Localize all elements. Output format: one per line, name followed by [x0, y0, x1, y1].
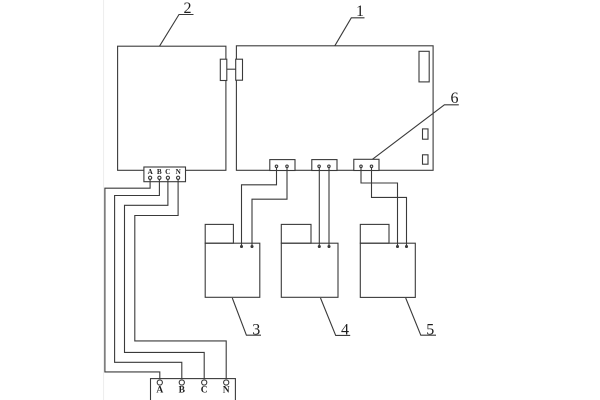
svg-text:C: C: [201, 386, 208, 396]
device 3: [205, 224, 260, 297]
enclosure 2: [118, 46, 226, 170]
terminal C: [166, 176, 169, 179]
svg-text:5: 5: [426, 321, 434, 338]
wire between docking ports: [227, 68, 236, 70]
svg-text:2: 2: [184, 0, 192, 17]
terminal B: [158, 176, 161, 179]
bottom terminal C: [202, 380, 207, 385]
label 2: [184, 0, 192, 17]
wire phase A: [105, 180, 160, 380]
enclosure 1: [236, 46, 433, 171]
wire J1 pin1 to device 3: [242, 167, 277, 246]
device 4: [281, 224, 338, 297]
bottom terminal label C: [201, 386, 208, 396]
bottom terminal N: [224, 380, 229, 385]
terminal block ABCN: [144, 167, 186, 182]
label 5 leader: [406, 298, 436, 335]
terminal label B: [157, 168, 162, 176]
terminal A: [149, 176, 152, 179]
svg-text:4: 4: [341, 321, 349, 338]
wire phase C: [125, 180, 205, 380]
bottom terminal label N: [223, 386, 230, 396]
bottom terminal A: [157, 380, 162, 385]
wire J3 pin2 to device 5: [372, 167, 407, 246]
svg-text:C: C: [165, 168, 170, 176]
terminal label C: [165, 168, 170, 176]
upper small slot in enclosure 1: [423, 129, 429, 139]
label 3 leader: [232, 298, 261, 335]
label 5: [426, 321, 434, 338]
bottom terminal label B: [179, 386, 186, 396]
tall slot in enclosure 1: [419, 51, 429, 82]
label 4: [341, 321, 349, 338]
terminal label A: [148, 168, 154, 176]
connector J1: [270, 160, 295, 171]
bottom terminal B: [179, 380, 184, 385]
label 1 leader: [335, 18, 365, 46]
svg-text:A: A: [156, 386, 163, 396]
docking port on enclosure 1: [236, 59, 243, 80]
bottom terminal block: [151, 379, 236, 400]
bottom terminal label A: [156, 386, 163, 396]
label 3: [252, 321, 260, 338]
wire phase B: [115, 180, 182, 380]
svg-text:B: B: [157, 168, 162, 176]
wire neutral N: [135, 180, 226, 380]
svg-text:6: 6: [451, 90, 459, 107]
wire J2 pin2 to device 4: [328, 167, 330, 246]
connector J3: [354, 159, 379, 170]
docking port on enclosure 2: [220, 59, 227, 80]
terminal N: [177, 176, 180, 179]
device 5: [360, 224, 415, 297]
svg-text:3: 3: [252, 321, 260, 338]
wire J3 pin1 to device 5: [361, 167, 398, 246]
svg-text:A: A: [148, 168, 154, 176]
svg-text:B: B: [179, 386, 186, 396]
wire J1 pin2 to device 3: [252, 167, 287, 246]
svg-text:1: 1: [356, 3, 364, 20]
label 6 leader: [372, 105, 458, 160]
connector J2: [312, 160, 337, 171]
svg-text:N: N: [176, 168, 182, 176]
label 4 leader: [321, 298, 351, 335]
label 1: [356, 3, 364, 20]
label 6: [451, 90, 459, 107]
terminal label N: [176, 168, 182, 176]
wire J2 pin1 to device 4: [318, 167, 320, 246]
svg-text:N: N: [223, 386, 230, 396]
lower small slot in enclosure 1: [423, 155, 429, 164]
label 2 leader: [160, 15, 194, 47]
